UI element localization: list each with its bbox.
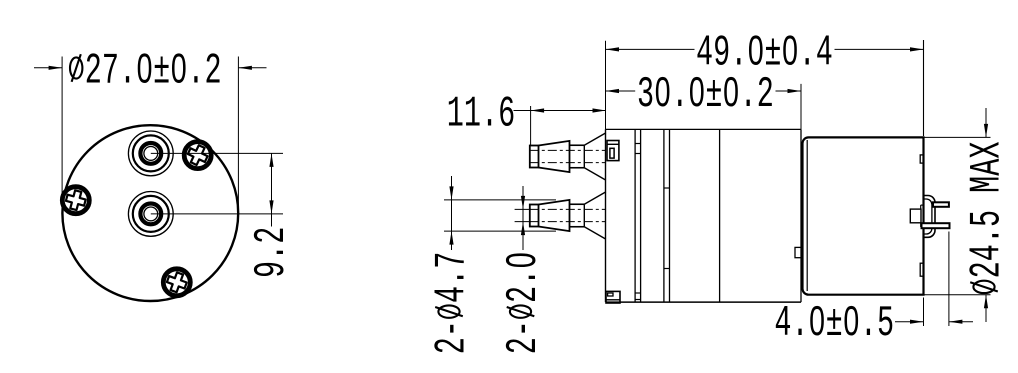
svg-text:11.6: 11.6 xyxy=(447,90,515,140)
svg-text:4.0±0.5: 4.0±0.5 xyxy=(774,300,894,350)
svg-text:30.0±0.2: 30.0±0.2 xyxy=(637,71,774,121)
svg-text:2- 4.7: 2- 4.7 xyxy=(428,252,478,355)
svg-text:9.2: 9.2 xyxy=(247,227,297,278)
svg-text:24.5 MAX: 24.5 MAX xyxy=(963,142,1013,296)
svg-text:2- 2.0: 2- 2.0 xyxy=(500,252,550,355)
